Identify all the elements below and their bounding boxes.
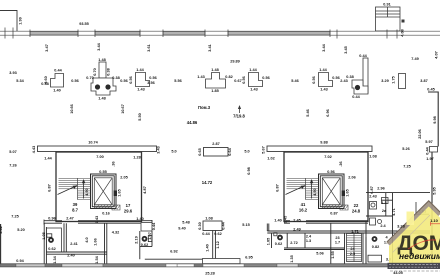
svg-text:5.46: 5.46 — [291, 79, 298, 83]
svg-text:0.16: 0.16 — [102, 212, 109, 216]
span dim 0.67 — [234, 79, 241, 83]
svg-text:4.90: 4.90 — [313, 188, 317, 195]
svg-text:0.38: 0.38 — [41, 82, 48, 86]
dim text 4.08 vertical — [401, 29, 405, 36]
right core hatch strip — [323, 205, 349, 210]
svg-text:0.67: 0.67 — [234, 79, 241, 83]
bottom right of pier rooms — [267, 223, 344, 263]
right elevator shaft — [319, 174, 350, 209]
svg-text:0.62: 0.62 — [275, 242, 282, 246]
dim 0.44 r vertical — [426, 146, 430, 154]
svg-text:1.65: 1.65 — [346, 189, 350, 196]
svg-text:44.05: 44.05 — [393, 271, 403, 275]
svg-text:0.94: 0.94 — [16, 259, 24, 263]
top exterior wall band — [0, 31, 440, 35]
left elevator shaft — [91, 174, 122, 209]
svg-text:Пом.3: Пом.3 — [198, 105, 211, 110]
rotated dim 3.47 — [45, 44, 49, 51]
svg-text:6.96: 6.96 — [326, 109, 330, 116]
dark square near porch — [402, 20, 405, 23]
svg-text:1.99: 1.99 — [19, 17, 23, 24]
svg-text:1.48: 1.48 — [98, 97, 105, 101]
svg-text:3.43: 3.43 — [157, 146, 161, 153]
dim 5.97 — [425, 140, 432, 144]
left core bottom wall — [44, 217, 152, 225]
svg-text:22.06: 22.06 — [418, 129, 422, 139]
svg-text:1.45: 1.45 — [284, 216, 288, 223]
svg-text:6.87: 6.87 — [276, 184, 280, 191]
svg-text:2.72: 2.72 — [290, 241, 297, 245]
svg-text:41: 41 — [301, 202, 306, 207]
rotated dim 3.41 — [208, 44, 212, 51]
labels right rooms — [245, 219, 323, 263]
pier bottom T column — [182, 217, 249, 237]
svg-text:5.97: 5.97 — [425, 140, 432, 144]
svg-text:0.44: 0.44 — [54, 69, 62, 73]
right core outer walls — [284, 152, 368, 222]
svg-text:5.0: 5.0 — [244, 150, 249, 154]
svg-text:3.44: 3.44 — [322, 43, 326, 51]
svg-text:1.44: 1.44 — [136, 68, 144, 72]
svg-text:10.66: 10.66 — [70, 104, 74, 114]
svg-text:6.87: 6.87 — [48, 184, 52, 191]
svg-text:4.32: 4.32 — [112, 231, 119, 235]
svg-text:3.02: 3.02 — [0, 226, 3, 233]
svg-text:39: 39 — [73, 202, 78, 207]
bottom-right block walls — [267, 193, 430, 264]
svg-text:.36: .36 — [112, 161, 116, 166]
svg-text:3.45: 3.45 — [344, 46, 348, 53]
svg-text:0.96: 0.96 — [48, 217, 55, 221]
svg-text:4.43: 4.43 — [32, 146, 36, 153]
svg-text:2.4: 2.4 — [380, 224, 386, 228]
span dim 3.29 — [381, 79, 388, 83]
svg-text:0.62: 0.62 — [141, 243, 148, 247]
svg-text:1.7: 1.7 — [335, 241, 340, 245]
svg-text:1.44: 1.44 — [44, 157, 52, 161]
right core dims top — [276, 155, 374, 194]
dim 9.98 vertical — [433, 116, 437, 123]
column P7 — [346, 75, 368, 99]
svg-text:1.48: 1.48 — [211, 68, 218, 72]
svg-text:0.70: 0.70 — [86, 76, 93, 80]
svg-text:2.05: 2.05 — [120, 176, 127, 180]
svg-text:1.08: 1.08 — [205, 217, 212, 221]
svg-text:44.86: 44.86 — [187, 120, 198, 125]
svg-text:3.93: 3.93 — [9, 71, 16, 75]
column P2 shaft — [86, 58, 119, 101]
svg-text:5.56: 5.56 — [174, 79, 181, 83]
span dim 2.43 — [340, 79, 347, 83]
entrance porch with steps — [376, 7, 401, 31]
svg-text:2.47: 2.47 — [66, 217, 73, 221]
svg-text:0.44: 0.44 — [352, 95, 360, 99]
svg-text:.36: .36 — [339, 161, 343, 166]
svg-text:0.38: 0.38 — [112, 76, 119, 80]
bottom middle partition walls — [46, 223, 202, 264]
svg-text:0.56: 0.56 — [149, 76, 156, 80]
svg-text:1.54: 1.54 — [95, 255, 99, 263]
svg-text:0.44: 0.44 — [202, 232, 210, 236]
area 14.72 — [202, 180, 213, 185]
column P6 — [312, 68, 340, 92]
bottom middle labels — [53, 227, 186, 264]
red dim on logo — [397, 218, 440, 229]
svg-text:1.43: 1.43 — [197, 75, 204, 79]
plan lines over logo zone — [416, 202, 429, 214]
svg-text:5.48: 5.48 — [182, 221, 189, 225]
left core dims top — [44, 155, 140, 192]
column P8 — [392, 74, 406, 89]
svg-text:1.43: 1.43 — [137, 88, 144, 92]
svg-text:6.92: 6.92 — [170, 250, 177, 254]
svg-text:0.87: 0.87 — [330, 212, 337, 216]
bottom-right small fixtures — [370, 198, 389, 226]
dim 4.87 vertical — [143, 186, 147, 193]
svg-text:9.98: 9.98 — [433, 116, 437, 123]
dim 5.26 — [402, 147, 409, 151]
svg-text:0.91: 0.91 — [383, 3, 390, 7]
svg-text:5.46: 5.46 — [306, 109, 310, 116]
svg-text:0.82: 0.82 — [225, 75, 232, 79]
right core bottom wall — [284, 221, 368, 232]
dim 5.07 left — [9, 150, 16, 154]
svg-text:2.45: 2.45 — [293, 219, 300, 223]
svg-text:7.49: 7.49 — [411, 57, 418, 61]
toilet circle middle — [141, 236, 152, 247]
svg-text:7.26: 7.26 — [9, 164, 16, 168]
basement stair bottom right — [347, 234, 364, 264]
svg-text:1.40: 1.40 — [53, 89, 60, 93]
svg-text:0.98: 0.98 — [247, 167, 251, 174]
column P5 — [242, 68, 270, 92]
bottom left room — [0, 215, 46, 265]
svg-text:9.40: 9.40 — [178, 227, 185, 231]
right core canopy wall — [262, 141, 377, 161]
mid dim 5.46 vertical — [306, 109, 310, 116]
svg-text:2.41: 2.41 — [70, 242, 77, 246]
dim 0.45 — [427, 88, 434, 92]
mid dim 10.67 vertical — [121, 104, 125, 114]
svg-text:29.89: 29.89 — [230, 60, 240, 64]
entry arrow and label 7/31.8 — [233, 105, 245, 119]
svg-text:2.19: 2.19 — [134, 236, 138, 243]
basement stair labels — [331, 236, 391, 262]
svg-text:0.30: 0.30 — [198, 222, 202, 229]
span dim 3.87 — [420, 79, 427, 83]
svg-text:1.35: 1.35 — [290, 255, 294, 262]
svg-text:2.5: 2.5 — [350, 252, 355, 256]
svg-text:24.8: 24.8 — [352, 209, 361, 214]
wall band ticks — [5, 28, 397, 39]
svg-text:7.25: 7.25 — [403, 165, 410, 169]
svg-text:2.43: 2.43 — [340, 79, 347, 83]
right stairs arrows — [286, 179, 314, 199]
svg-text:22: 22 — [354, 203, 359, 208]
svg-text:5.95: 5.95 — [433, 187, 437, 194]
span dim 5.56 — [174, 79, 181, 83]
column P3 — [129, 68, 157, 92]
svg-text:1.05: 1.05 — [266, 238, 270, 245]
bottom overall dim 25.28 — [205, 272, 215, 276]
rotated dim 3.44 — [97, 42, 101, 50]
svg-text:0.55: 0.55 — [99, 170, 106, 174]
svg-text:0.64: 0.64 — [228, 147, 232, 155]
svg-text:1.85: 1.85 — [211, 89, 218, 93]
svg-text:1.28: 1.28 — [133, 156, 140, 160]
svg-text:5.50: 5.50 — [138, 113, 142, 120]
svg-text:0.56: 0.56 — [312, 76, 316, 83]
svg-text:1.43: 1.43 — [320, 88, 327, 92]
rotated dim 4.07 — [435, 51, 439, 58]
svg-text:0.70: 0.70 — [93, 68, 97, 75]
svg-text:2.40: 2.40 — [67, 254, 74, 258]
bottom-right labels — [351, 187, 396, 234]
svg-text:1.08: 1.08 — [369, 155, 376, 159]
svg-text:4.90: 4.90 — [85, 188, 89, 195]
svg-text:1.97: 1.97 — [426, 157, 433, 161]
svg-text:5.06: 5.06 — [316, 252, 323, 256]
svg-text:3.41: 3.41 — [208, 44, 212, 51]
svg-text:1.44: 1.44 — [319, 68, 327, 72]
svg-text:1.02: 1.02 — [267, 157, 274, 161]
svg-text:1.48: 1.48 — [98, 58, 105, 62]
svg-text:2.4: 2.4 — [306, 235, 312, 239]
svg-text:4.87: 4.87 — [143, 186, 147, 193]
svg-text:10.67: 10.67 — [121, 104, 125, 114]
svg-text:5.34: 5.34 — [16, 79, 24, 83]
svg-text:0.45: 0.45 — [427, 88, 434, 92]
rotated dim 3.44 b — [322, 43, 326, 51]
left core outer walls — [56, 152, 142, 222]
span dim 5.34 — [16, 79, 24, 83]
svg-text:1.66: 1.66 — [94, 238, 98, 245]
annex outline top-left — [0, 11, 17, 32]
dim text 93.55 — [79, 22, 89, 26]
svg-text:4.71: 4.71 — [392, 208, 396, 215]
svg-text:29.6: 29.6 — [124, 209, 133, 214]
svg-text:1.65: 1.65 — [118, 189, 122, 196]
svg-text:0.38: 0.38 — [107, 68, 111, 75]
dim text 1.99 vertical — [19, 17, 23, 24]
svg-text:4.08: 4.08 — [401, 29, 405, 36]
svg-text:2.87: 2.87 — [212, 142, 219, 146]
svg-text:10.74: 10.74 — [88, 141, 98, 145]
svg-text:3.44: 3.44 — [97, 42, 101, 50]
svg-text:5.15: 5.15 — [242, 223, 249, 227]
watermark logo house — [387, 201, 440, 275]
dim 7.26 left — [9, 164, 16, 168]
svg-text:1.40: 1.40 — [206, 244, 210, 251]
column P1 — [41, 69, 63, 93]
svg-text:93.55: 93.55 — [79, 22, 89, 26]
span dim 0.56 a — [71, 79, 78, 83]
dim 7.49 — [411, 57, 418, 61]
svg-text:7/19.8: 7/19.8 — [233, 114, 245, 119]
svg-text:0.44: 0.44 — [222, 221, 226, 229]
svg-text:9.88: 9.88 — [320, 141, 327, 145]
svg-text:23: 23 — [335, 236, 339, 240]
mid dim 10.66 vertical — [70, 104, 74, 114]
svg-text:0.44: 0.44 — [426, 146, 430, 154]
pier between cores upper — [171, 142, 249, 156]
svg-text:16.2: 16.2 — [299, 208, 308, 213]
svg-text:5.0: 5.0 — [171, 150, 176, 154]
dim 7.25 r — [403, 165, 410, 169]
room label Пом.3 — [198, 105, 211, 110]
svg-text:0.56: 0.56 — [120, 79, 127, 83]
tiny dim 3.93 — [9, 71, 16, 75]
svg-text:1.34: 1.34 — [53, 255, 57, 263]
svg-text:1.43: 1.43 — [95, 216, 99, 223]
right core lower labels — [284, 188, 361, 223]
svg-text:17: 17 — [126, 203, 131, 208]
svg-text:1.75: 1.75 — [392, 76, 396, 83]
svg-text:1.05: 1.05 — [42, 232, 46, 239]
left core canopy wall — [32, 141, 161, 154]
svg-text:0.56: 0.56 — [327, 170, 334, 174]
left stairs — [59, 178, 91, 200]
svg-text:7.25: 7.25 — [11, 215, 18, 219]
corridor wall stem — [206, 231, 221, 259]
dim text 0.91 — [383, 3, 390, 7]
svg-text:2.06: 2.06 — [348, 176, 355, 180]
svg-text:3.47: 3.47 — [45, 44, 49, 51]
svg-text:0.82: 0.82 — [372, 245, 379, 249]
left core lower labels — [72, 188, 133, 223]
svg-text:8.7: 8.7 — [72, 208, 78, 213]
span dim 0.56 b — [120, 79, 127, 83]
svg-text:5.26: 5.26 — [402, 147, 409, 151]
svg-text:0.44: 0.44 — [359, 54, 367, 58]
svg-text:1.44: 1.44 — [249, 68, 257, 72]
mid dim 6.96 vertical — [326, 109, 330, 116]
svg-text:5.07: 5.07 — [9, 150, 16, 154]
svg-text:7.02: 7.02 — [324, 155, 331, 159]
svg-text:3.56: 3.56 — [147, 81, 154, 85]
svg-text:1.3: 1.3 — [381, 201, 386, 205]
dim 1.97 — [426, 157, 433, 161]
svg-text:0.62: 0.62 — [48, 247, 55, 251]
svg-text:2.96: 2.96 — [377, 187, 384, 191]
svg-text:0.56: 0.56 — [332, 76, 339, 80]
svg-text:4.0: 4.0 — [85, 237, 89, 242]
column P4 — [197, 68, 232, 93]
dim 22.06 vertical — [418, 129, 422, 139]
wall stub right of left core — [141, 222, 156, 231]
left core hatch strip — [95, 205, 121, 210]
svg-text:1.10: 1.10 — [430, 218, 439, 223]
rotated dim 3.45 — [344, 46, 348, 53]
svg-text:3.29: 3.29 — [381, 79, 388, 83]
svg-text:7.00: 7.00 — [96, 155, 103, 159]
svg-text:1.40: 1.40 — [136, 217, 143, 221]
area 44.86 — [187, 120, 198, 125]
svg-text:3.61: 3.61 — [147, 44, 151, 51]
svg-text:2.43: 2.43 — [369, 195, 376, 199]
svg-text:0.56: 0.56 — [71, 79, 78, 83]
right wall — [428, 92, 438, 263]
svg-text:3.87: 3.87 — [420, 79, 427, 83]
svg-text:0.56: 0.56 — [242, 76, 246, 83]
corridor wall footing — [203, 259, 241, 264]
svg-text:0.56: 0.56 — [129, 76, 133, 83]
svg-text:1.55: 1.55 — [331, 251, 335, 258]
svg-text:0.44: 0.44 — [152, 222, 156, 230]
svg-text:6.95: 6.95 — [245, 256, 252, 260]
rotated dim 3.61 — [147, 44, 151, 51]
dim 5.95 vertical — [433, 187, 437, 194]
svg-text:3.28: 3.28 — [397, 223, 406, 228]
svg-text:0.56: 0.56 — [262, 76, 269, 80]
svg-text:0.65: 0.65 — [198, 148, 202, 155]
svg-text:25.28: 25.28 — [205, 272, 215, 276]
svg-text:1.12: 1.12 — [216, 241, 220, 248]
svg-text:5.67: 5.67 — [262, 146, 266, 153]
right wall jog box — [430, 147, 438, 153]
left stairs arrows — [58, 179, 86, 199]
span dim 5.46 — [291, 79, 298, 83]
right stairs — [287, 178, 319, 200]
wc room left with toilet — [42, 228, 61, 252]
svg-text:1.3: 1.3 — [306, 239, 311, 243]
svg-text:недвижим: недвижим — [399, 251, 440, 261]
mid dim 5.50 vertical — [138, 113, 142, 120]
dim 29.89 — [230, 60, 240, 64]
bottom exterior wall band — [0, 264, 390, 267]
toilet right dark — [266, 233, 283, 246]
dim 0.98 vertical — [247, 167, 251, 174]
svg-text:4.07: 4.07 — [435, 51, 439, 58]
svg-text:5.20: 5.20 — [17, 228, 24, 232]
svg-text:14.72: 14.72 — [202, 180, 213, 185]
small room box bottom right — [368, 255, 382, 262]
svg-text:1.43: 1.43 — [250, 88, 257, 92]
duct shaft below porch — [359, 54, 368, 93]
svg-text:1.40: 1.40 — [274, 219, 281, 223]
svg-text:1.71: 1.71 — [351, 230, 358, 234]
